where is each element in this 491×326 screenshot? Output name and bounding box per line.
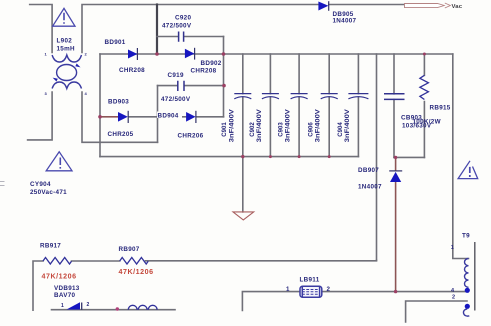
junction dots [155,52,159,56]
svg-text:CHR208: CHR208 [191,68,217,75]
resistor RB907 [120,258,149,265]
svg-text:2: 2 [87,302,90,308]
wire RB917 to RB907 [72,260,120,262]
choke pin ticks [45,52,88,97]
svg-text:RB917: RB917 [40,242,61,249]
ferrite bead LB911 [300,286,322,297]
wire LB911 to transformer pin4 [321,291,467,293]
svg-text:47K/1206: 47K/1206 [42,272,77,280]
T9 core [474,242,476,311]
CY904 cap stub at left edge [0,182,5,186]
T9 polarity dot pin2 winding [465,304,470,309]
wire RB915 leads [423,54,425,157]
warning triangle right [458,161,478,179]
capacitor CB903 [384,94,405,100]
wire vertical x=157.5 C919 to y142 line [157,86,159,143]
T9 second winding arc [463,309,469,316]
svg-text:C903: C903 [279,122,285,137]
svg-text:CY904: CY904 [30,181,51,188]
resistor RB915 [420,75,429,99]
wire DB907 bottom lead down to pin4 line [395,182,397,292]
svg-text:CHR206: CHR206 [178,133,204,140]
wire C904 leads [357,54,359,157]
svg-text:T9: T9 [462,232,470,239]
svg-text:3nF/400V: 3nF/400V [345,109,351,142]
junction dot on VDB913 line [116,307,119,310]
capacitor C901 [234,94,251,99]
wire choke-left down and left stub [28,92,52,140]
svg-text:100K/2W: 100K/2W [413,119,441,126]
wire top-left stub to choke [30,5,52,53]
wire bridge left vertical [99,54,101,157]
svg-text:LB911: LB911 [300,276,320,283]
T9 primary winding arcs [464,259,468,288]
wire link CB903-RB915 bottoms [394,156,424,158]
T9 pin labels [451,245,455,301]
wire vertical x=223.5 C920-right to row2 [223,37,225,117]
T9 polarity dot pin4 [465,288,470,293]
wire choke pin2 up and right to DB905 anode [82,5,318,53]
diode VDB913 [67,302,82,310]
wire C903 leads [298,54,300,157]
wire choke-right down and across y=142.3 [82,92,158,142]
svg-text:2: 2 [452,295,455,301]
diode BD903 [118,111,128,123]
svg-text:C904: C904 [338,122,344,137]
svg-text:2: 2 [327,286,331,293]
capacitor C904 [348,94,368,99]
svg-text:47K/1206: 47K/1206 [119,268,154,276]
svg-text:BD903: BD903 [108,98,129,105]
svg-text:1: 1 [451,245,454,251]
resistor RB917 [43,258,72,265]
inductor L902 common-mode choke [52,55,81,89]
wire ground drop x=242.8 [242,157,244,212]
capacitor C902 [262,94,279,99]
svg-text:C920: C920 [175,15,191,22]
svg-text:1: 1 [61,303,64,309]
svg-text:BD902: BD902 [201,60,222,67]
svg-text:BD901: BD901 [105,39,126,46]
svg-text:RB915: RB915 [430,105,451,112]
wire C920 leads [157,36,178,38]
wire vertical x=157 from top wire to rail [156,5,158,55]
svg-text:C919: C919 [168,72,184,79]
wire long vertical x=376.5 rail to y260.4 [376,54,378,260]
diode DB905 [318,1,328,11]
svg-text:15mH: 15mH [57,46,76,53]
svg-text:C906: C906 [309,122,315,137]
svg-text:3nF/400V: 3nF/400V [286,109,292,142]
svg-text:472/500V: 472/500V [161,96,191,103]
wire DB905 cathode to Vac flag [329,4,404,6]
svg-text:CHR205: CHR205 [108,131,134,138]
svg-text:DB907: DB907 [358,167,379,174]
wire VDB913 line [52,309,176,311]
warning triangle CY904 [46,152,72,171]
capacitor C906 [321,94,338,99]
svg-text:CHR208: CHR208 [119,67,145,74]
diode DB907 [389,171,402,182]
wire main rail y=54 [100,53,453,55]
svg-text:250Vac-471: 250Vac-471 [30,189,67,196]
wire DB907 top lead [395,157,397,170]
capacitor C903 [291,94,308,99]
ground [233,212,254,220]
svg-text:VDB913: VDB913 [54,285,80,292]
svg-text:1N4007: 1N4007 [333,18,357,25]
capacitor C919 [178,81,184,91]
diode BD901 [128,48,137,60]
warning triangle top [53,8,75,26]
wire C919 leads [158,85,178,87]
diode BD902 [185,48,195,60]
svg-text:C902: C902 [250,122,256,137]
wire LB911 line left corner down [242,292,300,311]
wire RB917 left lead and drop [33,261,43,310]
svg-text:RB907: RB907 [119,246,140,253]
svg-text:BD904: BD904 [158,113,179,120]
svg-text:472/500V: 472/500V [162,23,192,30]
svg-text:Vac: Vac [452,4,463,10]
svg-text:C901: C901 [222,122,228,137]
svg-text:3nF/400V: 3nF/400V [257,109,263,142]
svg-text:3nF/400V: 3nF/400V [229,109,235,142]
svg-text:L902: L902 [57,38,73,45]
wire transformer pin2 [406,301,467,322]
wire y=260.6 resistor row: RB907 right to corner x376.5 [146,259,377,261]
wire bottom rail y=156.6 [100,156,358,158]
wire C901 leads [242,54,244,157]
wire C906 leads [328,54,330,157]
svg-text:3nF/400V: 3nF/400V [316,109,322,142]
capacitor C920 [179,32,184,42]
svg-text:1N4007: 1N4007 [358,184,382,191]
wire transformer primary from rail [453,54,469,259]
inductor 3 humps on VDB913 line [128,305,157,309]
connector flag Vac [405,3,451,8]
diode BD904 [186,111,196,123]
wire row2 diodes BD903 BD904 [100,116,118,118]
svg-text:BAV70: BAV70 [54,292,76,299]
wire C902 leads [269,54,271,157]
svg-text:1: 1 [286,286,290,293]
wire CB903 leads [393,54,395,157]
